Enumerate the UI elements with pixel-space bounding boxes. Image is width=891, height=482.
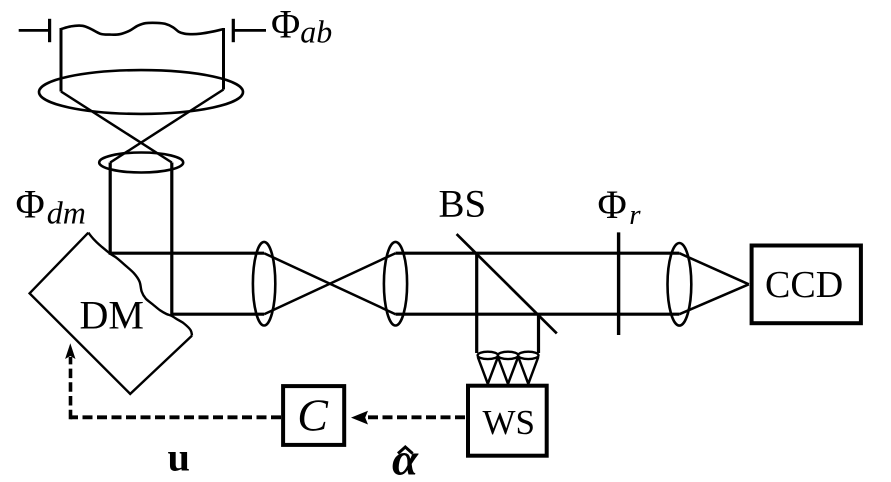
wire: aperture lead left — [19, 29, 51, 32]
wire: horizontal beam top (DM to lens A) — [110, 252, 264, 255]
node: aperture tick left — [48, 19, 51, 42]
wire: horizontal beam bottom (DM to lens A) — [172, 313, 264, 316]
lenslet cone 2 — [498, 357, 518, 384]
wire: converging ray left-to-right — [61, 92, 172, 163]
wire: horizontal beam bottom (lens B to lens C) — [396, 313, 680, 316]
arrowhead into DM — [65, 343, 75, 359]
node: aperture tick right — [232, 19, 235, 42]
wire: relay crossing ray 1 — [264, 253, 395, 314]
wire: beam edge left (top telescope) — [60, 28, 63, 92]
wire: beam edge right (top telescope) — [222, 28, 225, 90]
label alpha-hat circumflex — [398, 447, 413, 454]
wire: converging ray right-to-left — [110, 90, 223, 163]
svg-text:C: C — [297, 390, 329, 441]
svg-text:u: u — [168, 435, 191, 480]
lenslet 3 — [518, 352, 538, 359]
lenslet cone 3 — [518, 357, 538, 384]
dashed feedback wire: C to left — [70, 415, 281, 419]
DM wavy mirror surface — [88, 233, 192, 336]
lens B (relay) — [384, 242, 407, 326]
wire: aperture lead right — [232, 29, 266, 32]
arrowhead into C — [351, 411, 368, 425]
wire: converging ray to CCD top — [679, 253, 748, 284]
wire: relay crossing ray 2 — [264, 253, 395, 314]
lens L2 (collimator small) — [99, 153, 183, 173]
CCD box — [752, 246, 861, 324]
wire: reflected beam edge right — [537, 314, 540, 353]
svg-text:BS: BS — [439, 183, 487, 226]
wire: vertical beam edge right (to DM) — [170, 163, 173, 316]
wire: horizontal beam top (lens B to lens C) — [396, 252, 680, 255]
lens L1 (telescope objective) — [39, 70, 243, 114]
C box — [283, 386, 344, 445]
svg-text:CCD: CCD — [765, 264, 843, 306]
lenslet 1 — [478, 352, 498, 359]
dashed feedback wire: WS to C — [367, 415, 465, 419]
lenslet cone 1 — [478, 357, 498, 384]
phase plate (reference phase) — [617, 232, 620, 335]
lens A (relay) — [253, 242, 275, 326]
svg-text:α: α — [392, 434, 420, 482]
beam splitter BS diagonal — [457, 234, 557, 333]
svg-text:WS: WS — [483, 403, 536, 442]
lens C (imaging) — [668, 243, 692, 326]
WS box — [468, 386, 547, 456]
wire: reflected beam edge left — [475, 253, 478, 353]
deformable mirror DM body — [30, 233, 192, 394]
wire: vertical beam edge left (to DM) — [109, 163, 112, 255]
lenslet 2 — [498, 352, 518, 359]
dashed feedback wire: up to DM — [69, 357, 73, 419]
svg-text:DM: DM — [80, 292, 144, 337]
wire: aberrated wavefront — [61, 23, 224, 35]
wire: converging ray to CCD bottom — [679, 284, 748, 314]
